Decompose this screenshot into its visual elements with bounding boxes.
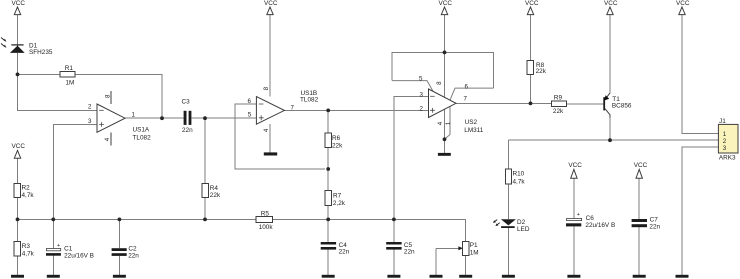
- svg-text:3: 3: [420, 91, 424, 98]
- svg-text:22n: 22n: [649, 224, 660, 231]
- svg-text:7: 7: [464, 96, 468, 103]
- svg-text:3: 3: [88, 118, 92, 125]
- svg-text:VCC: VCC: [634, 162, 648, 169]
- svg-text:2: 2: [88, 104, 92, 111]
- svg-text:P1: P1: [470, 242, 478, 249]
- svg-text:LM311: LM311: [464, 127, 484, 134]
- svg-text:22k: 22k: [553, 108, 564, 115]
- svg-text:R7: R7: [333, 192, 342, 199]
- svg-text:2: 2: [723, 138, 727, 145]
- svg-text:100k: 100k: [259, 224, 274, 231]
- svg-text:LED: LED: [517, 226, 530, 233]
- svg-text:22n: 22n: [128, 252, 139, 259]
- svg-text:4,7k: 4,7k: [513, 179, 526, 186]
- svg-text:22n: 22n: [339, 249, 350, 256]
- svg-text:VCC: VCC: [264, 0, 278, 7]
- svg-text:22n: 22n: [404, 249, 415, 256]
- svg-text:C3: C3: [182, 99, 191, 106]
- svg-text:VCC: VCC: [568, 162, 582, 169]
- svg-text:J1: J1: [719, 118, 726, 125]
- svg-text:R5: R5: [261, 211, 270, 218]
- svg-text:5: 5: [248, 112, 252, 119]
- svg-text:VCC: VCC: [439, 0, 453, 7]
- svg-text:6: 6: [465, 83, 469, 90]
- svg-text:VCC: VCC: [525, 0, 539, 7]
- svg-text:C7: C7: [650, 217, 659, 224]
- svg-text:6: 6: [248, 98, 252, 105]
- svg-text:1M: 1M: [470, 249, 479, 256]
- svg-text:R9: R9: [554, 95, 563, 102]
- svg-text:4: 4: [263, 128, 270, 132]
- svg-text:4: 4: [104, 137, 111, 141]
- svg-text:ARK3: ARK3: [719, 155, 736, 162]
- svg-text:1M: 1M: [66, 80, 75, 87]
- svg-text:+: +: [577, 212, 580, 218]
- svg-text:R1: R1: [65, 65, 74, 72]
- svg-text:TL082: TL082: [133, 135, 152, 142]
- svg-text:R6: R6: [332, 135, 341, 142]
- svg-text:SFH235: SFH235: [29, 49, 53, 56]
- svg-text:22u/16V B: 22u/16V B: [64, 252, 94, 259]
- svg-text:US2: US2: [465, 119, 478, 126]
- svg-text:2,2k: 2,2k: [333, 200, 346, 207]
- svg-text:R2: R2: [22, 185, 31, 192]
- svg-text:4: 4: [437, 121, 444, 125]
- svg-text:4,7k: 4,7k: [22, 192, 35, 199]
- svg-text:22n: 22n: [182, 127, 193, 134]
- svg-text:22k: 22k: [210, 192, 221, 199]
- svg-text:4,7k: 4,7k: [22, 251, 35, 258]
- svg-text:1: 1: [132, 111, 136, 118]
- svg-text:22k: 22k: [536, 68, 547, 75]
- svg-text:R3: R3: [22, 243, 31, 250]
- svg-text:5: 5: [419, 75, 423, 82]
- svg-text:8: 8: [263, 86, 270, 90]
- svg-text:8: 8: [104, 94, 111, 98]
- svg-text:7: 7: [291, 105, 295, 112]
- svg-text:8: 8: [436, 81, 443, 85]
- svg-text:US1A: US1A: [133, 127, 150, 134]
- svg-text:3: 3: [723, 145, 727, 152]
- svg-text:22k: 22k: [332, 142, 343, 149]
- svg-text:22u/16V B: 22u/16V B: [585, 222, 615, 229]
- svg-text:C1: C1: [64, 245, 73, 252]
- svg-text:VCC: VCC: [12, 0, 26, 7]
- svg-text:2: 2: [420, 105, 424, 112]
- svg-text:VCC: VCC: [12, 143, 26, 150]
- svg-text:R4: R4: [210, 185, 219, 192]
- svg-text:TL082: TL082: [300, 96, 319, 103]
- svg-text:+: +: [57, 243, 60, 249]
- svg-text:VCC: VCC: [604, 0, 618, 7]
- svg-text:1: 1: [445, 121, 452, 125]
- svg-text:1: 1: [723, 131, 727, 138]
- svg-text:R10: R10: [513, 171, 525, 178]
- svg-text:VCC: VCC: [676, 0, 690, 7]
- svg-text:BC856: BC856: [612, 103, 632, 110]
